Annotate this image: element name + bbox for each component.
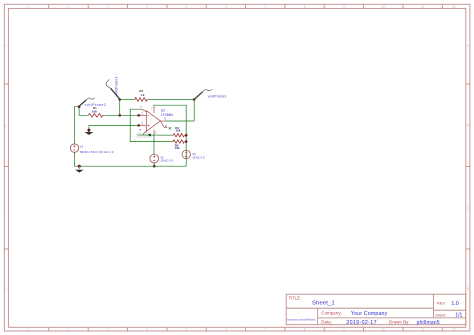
frame row ticks left [4, 84, 8, 249]
resistor R1 [88, 114, 103, 118]
svg-text:1.0: 1.0 [451, 301, 458, 307]
node: R6 right junction [185, 140, 188, 143]
voltage source V3 [182, 150, 190, 158]
pin 1 (balance) [142, 109, 147, 112]
svg-text:12: 12 [452, 328, 456, 332]
pin 8 (NC) [160, 121, 167, 127]
op-amp minus sign [147, 114, 149, 116]
wire: pin3 to ground [89, 124, 139, 126]
svg-text:11: 11 [421, 328, 424, 332]
ground (pin3) [84, 125, 93, 135]
svg-text:B: B [4, 124, 6, 128]
svg-text:Drawn By:: Drawn By: [389, 320, 410, 325]
wire arrow (black) [147, 134, 151, 137]
pin 4 (V-) [153, 130, 155, 134]
svg-text:10k: 10k [176, 129, 181, 133]
node: V2 rail junction [153, 165, 156, 168]
wire: op-amp output [166, 120, 194, 122]
resistor R6 [173, 140, 185, 143]
voltage probe voltProbe2 [79, 98, 95, 107]
svg-text:A: A [467, 44, 469, 48]
svg-text:SIN(0 1 50 0 0 0) AC 1 0: SIN(0 1 50 0 0 0) AC 1 0 [80, 150, 114, 154]
svg-text:10: 10 [382, 328, 386, 332]
svg-text:V1: V1 [80, 145, 84, 149]
wire: probe2 node down to R1 [79, 107, 88, 116]
svg-text:12: 12 [452, 5, 456, 9]
wire: R3 right to probe1 node [147, 99, 194, 101]
svg-text:TITLE:: TITLE: [289, 295, 302, 300]
wire: pin1 to left loop [130, 109, 173, 141]
svg-text:Company:: Company: [321, 311, 342, 316]
wire: pin7 V+ loop to R4/R6 right side [154, 105, 186, 166]
wire: probe2 node left segment [75, 107, 80, 144]
pin 5 (balance) [143, 130, 146, 135]
node: output/probe1 junction [193, 98, 196, 101]
wire: feedback vertical output to top [193, 100, 195, 122]
svg-text:1k: 1k [141, 93, 145, 97]
svg-text:A: A [4, 44, 6, 48]
pin 2 (IN-) [139, 114, 147, 116]
wire: ground rail [75, 165, 187, 167]
svg-text:voltProbe2: voltProbe2 [85, 103, 107, 107]
node: pin3 dot [137, 124, 140, 127]
voltage probe voltProbe1 [194, 89, 212, 99]
frame row ticks right [466, 84, 470, 249]
svg-text:10k: 10k [92, 110, 97, 114]
title row divider [286, 307, 433, 309]
wire: vertical from top node down to R1 wire [119, 100, 121, 116]
wire: top node to R3 [120, 99, 135, 101]
resistor R3 [135, 98, 147, 102]
node: rail ground junction [78, 165, 81, 168]
svg-text:10: 10 [382, 5, 386, 9]
wire: pin4 down to V2 [153, 134, 155, 155]
svg-text:2019-02-17: 2019-02-17 [346, 320, 377, 326]
svg-text:REV:: REV: [437, 301, 446, 306]
vertical divider URL cell [317, 308, 319, 325]
svg-text:Sheet:: Sheet: [435, 312, 446, 317]
svg-text:11: 11 [421, 5, 424, 9]
svg-text:15 AC 0 0: 15 AC 0 0 [160, 159, 173, 163]
node: probe2 junction [78, 105, 81, 108]
ground (rail) [75, 166, 83, 172]
resistor R4 [173, 134, 185, 137]
wire: V1 bottom to rail [74, 152, 76, 166]
frame column ticks bottom [49, 327, 443, 331]
frame row letters [4, 44, 470, 291]
svg-text:Sheet_1: Sheet_1 [312, 300, 335, 306]
svg-text:Date:: Date: [321, 320, 332, 325]
op-amp U2 triangle [146, 111, 160, 132]
title block outer box [286, 294, 466, 325]
REV cell divider [434, 309, 466, 311]
svg-text:10k: 10k [175, 146, 180, 150]
node: top node junction (probe4 tip) [118, 98, 121, 101]
svg-text:phillman5: phillman5 [417, 320, 440, 326]
voltage source V2 [150, 154, 159, 163]
op-amp plus sign [147, 125, 149, 127]
voltage source V1 [70, 144, 78, 152]
node: pin2 dot [137, 114, 140, 117]
svg-text:B: B [467, 124, 469, 128]
svg-text:U2: U2 [161, 109, 165, 113]
vertical divider REV cell [433, 294, 435, 318]
pin 7 (V+) [153, 108, 155, 113]
svg-text:voltProbe1: voltProbe1 [208, 94, 227, 98]
wire: pin5 to R4 [138, 134, 173, 136]
svg-text:easyeda.com/phillman5: easyeda.com/phillman5 [287, 318, 316, 321]
frame column ticks top [49, 4, 443, 8]
wire: pin5 to R4 (selected, halo) [137, 133, 151, 137]
svg-text:1/1: 1/1 [455, 313, 462, 319]
node: R4 right junction [185, 134, 188, 137]
company/date divider [318, 317, 466, 319]
svg-text:15 AC 0 0: 15 AC 0 0 [192, 155, 205, 159]
no-connect X on pin 8 [169, 127, 171, 129]
pin 6 (output) [160, 120, 166, 122]
wire: R1 right to pin2 node [103, 114, 139, 116]
svg-text:voltProbe4: voltProbe4 [114, 76, 118, 95]
wire: V2 bottom to rail [153, 163, 155, 166]
svg-text:Your Company: Your Company [351, 311, 388, 317]
pin 3 (IN+) [139, 124, 147, 126]
voltage probe voltProbe4 [106, 79, 120, 99]
node: junction R1/probe4 branch [118, 114, 121, 117]
svg-text:LF356N: LF356N [161, 113, 174, 117]
